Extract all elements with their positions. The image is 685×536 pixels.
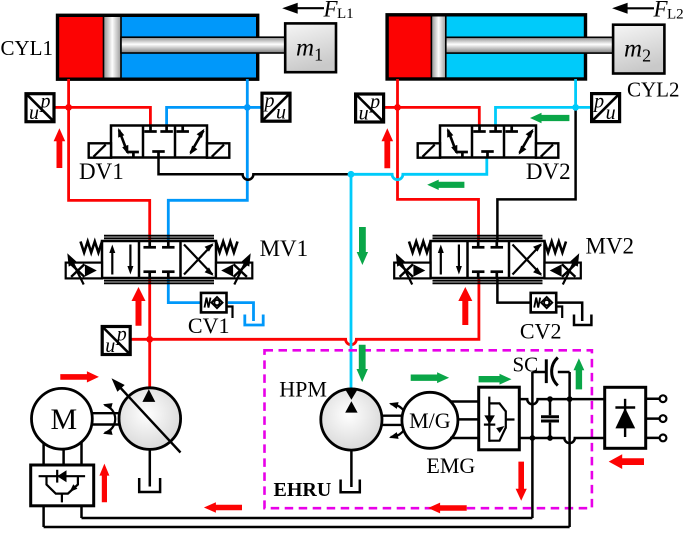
- label SC: [513, 353, 539, 377]
- wire cyan CYL2 rod to junction: [574, 79, 577, 107]
- svg-text:SC: SC: [513, 353, 539, 377]
- wire red junction down to MV2: [398, 107, 479, 242]
- rectifier box: [605, 387, 646, 448]
- EHRU dashed boundary: [265, 350, 592, 508]
- label DV2: [526, 159, 571, 184]
- svg-text:u: u: [276, 102, 286, 124]
- svg-text:CYL2: CYL2: [627, 78, 680, 102]
- label CYL1: [1, 36, 54, 60]
- node red junction A2: [146, 336, 153, 343]
- label CV2: [520, 319, 562, 344]
- wire SC right leg: [568, 372, 571, 527]
- label CV1: [188, 313, 230, 338]
- wire DC+ line: [519, 399, 604, 404]
- label HPM: [279, 377, 327, 402]
- wire red junction to DV2 P: [398, 107, 480, 126]
- pressure sensor PU3: [356, 91, 384, 125]
- node blue junction B1: [244, 104, 251, 111]
- green arrow right EMG: [479, 374, 512, 385]
- hydraulic pump motor HPM: [321, 389, 382, 450]
- wire DC- line: [519, 438, 604, 443]
- green arrow left DV2: [530, 113, 569, 123]
- wire cyan node C2 down to HPM: [350, 174, 353, 389]
- directional valve DV2: [418, 126, 559, 158]
- wire black CV2 to tank: [557, 303, 582, 321]
- svg-text:L2: L2: [667, 7, 684, 23]
- tank symbol T3: [139, 449, 160, 492]
- proportional valve MV2: [394, 236, 581, 285]
- svg-text:M/G: M/G: [409, 408, 451, 433]
- shaft M-pump: [92, 403, 119, 435]
- variable displacement pump P1: [112, 378, 181, 452]
- wire red junction down to MV1: [69, 107, 150, 242]
- mass block m1: [285, 23, 336, 72]
- wire cyan DV2 tank line to node C2: [351, 157, 487, 180]
- force arrow F_L2: [612, 0, 684, 23]
- wire red sensor5 link: [130, 338, 150, 341]
- wire SC left leg: [531, 372, 534, 518]
- check valve CV2: [531, 293, 563, 318]
- pressure sensor PU5: [102, 324, 130, 358]
- mass block m2: [613, 25, 664, 74]
- pressure sensor PU2: [262, 90, 290, 124]
- wire red CYL1 cap to junction: [67, 79, 70, 107]
- inverter U1 box: [31, 465, 94, 506]
- svg-text:EHRU: EHRU: [274, 479, 332, 501]
- svg-text:CV1: CV1: [188, 313, 230, 338]
- wire cyan sensor4 link: [576, 106, 593, 109]
- red flow arrow left rectifier: [609, 454, 644, 469]
- svg-text:p: p: [368, 91, 380, 113]
- green arrow down node C2: [357, 227, 368, 265]
- svg-text:u: u: [359, 103, 369, 125]
- red flow arrow down EHRU: [516, 462, 527, 501]
- red flow arrow left bus: [204, 502, 242, 513]
- wire black MV2 to CV2: [497, 277, 530, 303]
- wire cyan junction to DV2: [496, 107, 576, 126]
- node red junction A1: [65, 104, 72, 111]
- svg-text:CV2: CV2: [520, 319, 562, 344]
- wire blue junction to DV1: [167, 107, 248, 126]
- svg-text:u: u: [105, 335, 115, 357]
- red flow arrow up MV2: [458, 287, 472, 325]
- svg-text:DV1: DV1: [79, 159, 124, 184]
- green arrow right HPM: [411, 372, 449, 383]
- label MV2: [586, 234, 635, 259]
- svg-text:DV2: DV2: [526, 159, 571, 184]
- wires inverter to bus: [44, 506, 82, 527]
- capacitor C1: [541, 399, 559, 438]
- node red junction A3: [394, 104, 401, 111]
- red flow arrow up MV1: [132, 287, 146, 326]
- wire DC bus upper: [82, 517, 533, 520]
- wire red CYL2 cap to junction: [396, 79, 399, 107]
- red flow arrow up inverter: [99, 464, 109, 503]
- green arrow up SC: [574, 358, 585, 389]
- label MV1: [260, 236, 309, 261]
- directional valve DV1: [89, 126, 230, 158]
- wire red MV1 to pump: [148, 277, 151, 389]
- node cyan junction C1: [572, 104, 579, 111]
- wire SC top link: [532, 371, 569, 374]
- red flow arrow right motor M: [60, 371, 99, 382]
- force arrow F_L1: [282, 0, 353, 22]
- label CYL2: [627, 78, 680, 102]
- svg-text:u: u: [606, 102, 616, 124]
- svg-text:p: p: [263, 90, 275, 112]
- check valve CV1: [201, 293, 233, 318]
- proportional valve MV1: [66, 236, 253, 285]
- svg-text:p: p: [39, 91, 51, 113]
- svg-text:EMG: EMG: [426, 453, 475, 478]
- svg-text:CYL1: CYL1: [1, 36, 54, 60]
- tank symbol T1 blue: [245, 315, 263, 326]
- wire blue CYL1 rod to junction: [246, 79, 249, 107]
- wires M to inverter: [44, 442, 82, 465]
- node DC junctions: [530, 396, 573, 441]
- wire blue CV1 to tank: [228, 303, 254, 321]
- svg-text:M: M: [51, 403, 78, 436]
- electric motor M: [32, 388, 93, 449]
- tank symbol T2: [574, 315, 591, 326]
- green arrow down HPM: [357, 345, 368, 382]
- tank symbol T4: [341, 450, 360, 492]
- hydraulic cylinder CYL1: [58, 15, 287, 79]
- wire red main pressure line: [150, 277, 479, 345]
- svg-text:u: u: [29, 102, 39, 124]
- pressure sensor PU4: [592, 91, 620, 125]
- wire red junction to DV1 P: [69, 107, 151, 126]
- wire blue junction down to MV1: [168, 107, 247, 242]
- label EHRU: [274, 479, 332, 501]
- three phase terminals: [646, 395, 667, 441]
- node cyan junction C2: [348, 171, 355, 178]
- svg-text:MV1: MV1: [260, 236, 309, 261]
- red flow arrow up CYL1: [54, 128, 66, 168]
- shaft HPM-MG: [381, 402, 407, 439]
- wire blue sensor2 link: [247, 106, 262, 109]
- svg-text:p: p: [115, 324, 127, 346]
- green arrow left cyan line: [427, 180, 464, 190]
- red flow arrow up CYL2: [382, 128, 394, 168]
- wire black DV1 tank line: [159, 157, 352, 180]
- wires MG to inverter2: [450, 402, 479, 439]
- wire red sensor3 link: [384, 106, 398, 109]
- label DV1: [79, 159, 124, 184]
- pressure sensor PU1: [26, 91, 54, 125]
- svg-text:MV2: MV2: [586, 234, 635, 259]
- wire red sensor1 link: [54, 106, 68, 109]
- red flow arrow left EHRU: [428, 503, 467, 514]
- svg-text:L1: L1: [337, 6, 354, 22]
- hydraulic cylinder CYL2: [387, 15, 614, 79]
- inverter U2 box: [479, 387, 520, 450]
- svg-text:HPM: HPM: [279, 377, 327, 402]
- svg-text:p: p: [592, 91, 604, 113]
- supercapacitor SC: [546, 358, 558, 386]
- wire black CYL2 sensor down to MV2: [497, 107, 575, 242]
- wire DC bus lower: [44, 526, 570, 529]
- wire blue MV1 to CV1: [168, 277, 201, 303]
- label EMG: [426, 453, 475, 478]
- motor generator MG: [402, 392, 458, 448]
